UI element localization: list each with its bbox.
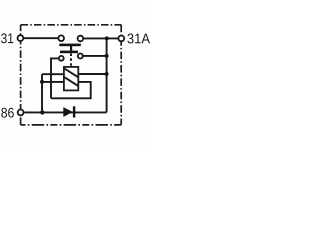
bus wire down right side [106, 38, 108, 112]
movable bridge contact bar lower [60, 51, 78, 54]
label 31A [127, 34, 150, 44]
left vertical wire to ground wire [41, 74, 43, 112]
label 86 [1, 108, 13, 118]
junction dot bus row2 [105, 54, 109, 58]
bridge link [70, 45, 72, 51]
junction dot bus coil wire [105, 72, 109, 76]
contact circle row2 left [59, 56, 64, 61]
relay coil box with winding diagonals [64, 67, 78, 91]
actuator dashed line to coil [70, 53, 72, 67]
wire row2 right contact to bus [83, 55, 107, 57]
contact circle row1 left [58, 35, 64, 41]
diode V1 [63, 106, 75, 117]
junction dot H2 left [40, 80, 44, 84]
wire coil left side H2 [42, 81, 64, 83]
contact circle row1 right [78, 36, 84, 42]
wire contact to terminal 31A [83, 37, 119, 39]
junction dot ground wire [40, 110, 44, 114]
terminal 31A [118, 36, 124, 42]
wire coil left side H1 [42, 73, 64, 75]
wire row2 left contact to corner [51, 58, 59, 98]
wire coil right side to bus [78, 73, 106, 75]
terminal 86 [18, 110, 24, 116]
movable bridge contact bar upper [59, 44, 81, 47]
junction dot bus top [105, 36, 109, 40]
wire terminal 31 to contact [22, 37, 58, 39]
wire terminal 86 to bus corner [22, 111, 107, 113]
contact circle row2 right [78, 54, 83, 59]
hook wire coil right to contact branch [51, 82, 91, 98]
label 31 [1, 33, 13, 43]
terminal 31 [18, 35, 24, 41]
relay housing outline (dash-dot enclosure) [21, 25, 122, 125]
